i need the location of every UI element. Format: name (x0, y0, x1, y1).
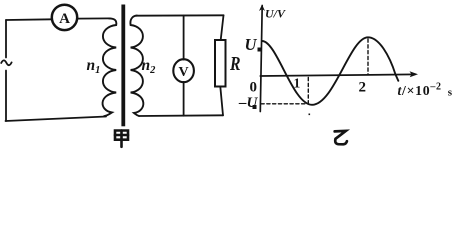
AC source ~ (1, 60, 11, 65)
svg-text:2: 2 (359, 80, 367, 96)
primary coil winding (103, 18, 117, 116)
wire ammeter to primary coil (78, 17, 111, 19)
resistor R body (215, 40, 226, 87)
speckle dot (309, 114, 311, 116)
voltmeter branch upper wire (183, 16, 185, 60)
label yi (乙) under graph (335, 131, 347, 144)
wire bottom-right horizontal (139, 114, 223, 117)
secondary coil winding (130, 16, 143, 116)
sine curve (262, 37, 398, 105)
svg-text:A: A (59, 11, 70, 27)
ammeter A (52, 5, 77, 30)
graph y-axis (260, 6, 262, 112)
dashed horizontal at -U0 (261, 103, 307, 105)
wire bottom-left horizontal (6, 117, 107, 122)
svg-text:U/V: U/V (265, 7, 286, 21)
transformer core (121, 5, 125, 127)
wire right vertical lower (from resistor) (220, 87, 223, 116)
svg-text:U: U (245, 35, 258, 54)
wire right vertical upper (to resistor) (221, 15, 224, 40)
svg-text:R: R (229, 54, 240, 75)
svg-text:0: 0 (250, 80, 258, 96)
dashed vertical at t=1 (307, 78, 309, 104)
voltmeter V (173, 59, 194, 82)
wire top-right horizontal (136, 14, 224, 16)
wire left vertical upper (5, 20, 7, 58)
x-axis arrowhead (410, 71, 419, 77)
svg-text:V: V (179, 65, 189, 80)
dashed vertical at t=2 (367, 39, 369, 74)
label jia (甲) under transformer (115, 131, 128, 147)
wire left vertical lower (5, 71, 7, 122)
y-axis arrowhead (259, 5, 265, 12)
svg-text:1: 1 (294, 76, 301, 91)
wire top-left horizontal (6, 18, 52, 21)
graph x-axis (260, 74, 415, 76)
voltmeter branch lower wire (183, 82, 185, 116)
